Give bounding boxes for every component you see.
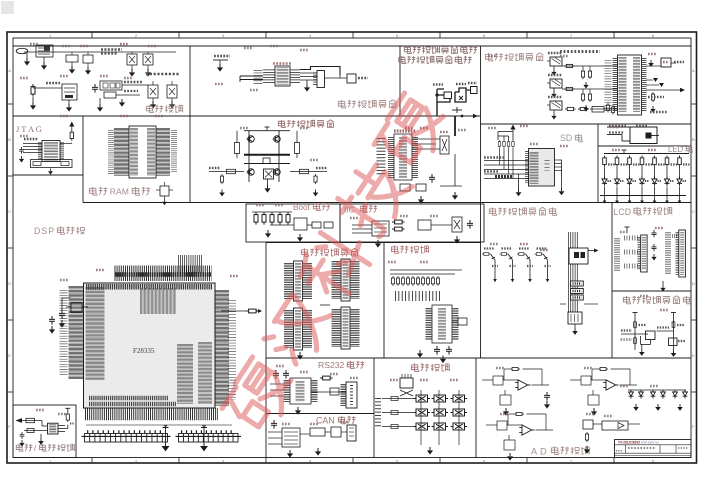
wires <box>270 224 294 226</box>
feedback resistor U22 <box>598 367 608 370</box>
wire row 2 <box>562 88 617 90</box>
cell emitter marks <box>527 265 533 267</box>
ground <box>417 350 423 358</box>
resistor pair below codec <box>607 103 610 112</box>
wire in <box>570 379 581 381</box>
resistor R53a <box>672 320 675 329</box>
resistor R52b <box>634 336 637 345</box>
dsp U9 left pin comb <box>69 286 84 379</box>
diode D8 <box>629 390 634 399</box>
sd card connector body <box>529 149 555 187</box>
audio codec inner text right <box>633 57 640 112</box>
section box: iic comms <box>340 204 484 242</box>
vcc tick <box>266 127 268 131</box>
ram U8 inner text col2 <box>147 128 155 176</box>
ground <box>440 356 446 364</box>
svg-text:B: B <box>8 137 11 142</box>
switch S4 <box>414 409 431 416</box>
ic U13 <box>418 220 431 230</box>
transistor Q9 <box>526 254 530 260</box>
cell drop wire <box>512 260 514 279</box>
dsp U9 bottom pin comb <box>85 408 218 421</box>
capacitor C11 <box>19 147 24 154</box>
header J6 left comb <box>284 263 293 299</box>
cell label <box>502 247 512 249</box>
sensor block A <box>646 331 656 340</box>
ground cluster <box>213 59 228 61</box>
diode D9 <box>639 390 644 399</box>
dsp U9 interior top name columns <box>140 288 176 314</box>
ad protection diode array <box>628 389 686 391</box>
header J8 right comb <box>303 310 312 348</box>
label: level shift <box>391 245 398 253</box>
label: external RAM circuit <box>89 187 96 195</box>
cell emitter marks <box>545 265 551 267</box>
resistor left <box>235 143 240 154</box>
section line: h y=202.5 wide <box>83 202 691 204</box>
resistor R10 <box>416 184 426 191</box>
cap array CA1 ground stem <box>165 426 167 444</box>
ground <box>648 60 654 67</box>
comparator block U23 <box>602 421 628 430</box>
section line: top row tops y=46 <box>13 45 691 47</box>
transistor Q7 <box>491 254 495 260</box>
op-amp U21 <box>515 380 530 390</box>
out wire <box>620 384 638 386</box>
wire dsp right to rs232 <box>221 310 246 312</box>
led bottom bus <box>600 195 686 197</box>
reset output arrow <box>16 418 23 423</box>
ground <box>48 169 53 175</box>
led resistor array R39-R45 <box>603 156 607 167</box>
reset wire lower <box>24 430 48 432</box>
net label <box>548 74 562 76</box>
cell emitter marks <box>492 265 498 267</box>
node VIN wire <box>24 51 126 53</box>
ad channel 3 input block <box>583 420 593 429</box>
drive loop 1 <box>437 89 450 102</box>
gray label <box>621 338 633 340</box>
svg-text:TX-2812/28335: TX-2812/28335 <box>618 441 640 445</box>
ground <box>119 99 125 107</box>
capacitor CE2 <box>143 54 153 65</box>
wire row 1 <box>562 65 617 67</box>
ground <box>677 404 683 411</box>
title small text <box>628 447 656 449</box>
decoupling capacitor array CA1 boxes <box>85 434 168 443</box>
ground <box>452 192 458 200</box>
dac net labels left <box>254 70 263 84</box>
header J6 right comb <box>303 263 312 299</box>
capacitor C12 <box>20 432 25 439</box>
audio codec left pins <box>613 58 618 112</box>
label: dc motor drive <box>278 120 285 128</box>
ic filter block <box>592 107 604 113</box>
regulator U3 <box>62 84 77 100</box>
ground <box>427 447 433 455</box>
wire to connector <box>466 89 471 91</box>
left output wire <box>209 171 244 173</box>
pullup wire drops <box>499 148 501 165</box>
label: seven segment driver circuit <box>489 207 496 215</box>
title block row line 2 <box>615 452 692 454</box>
resistor pair R64 R65 <box>581 92 584 102</box>
resistor R20 <box>392 220 405 224</box>
ground <box>99 98 101 104</box>
resistor right <box>295 143 300 154</box>
resistor R60 <box>564 64 575 67</box>
ground <box>68 100 70 104</box>
bridge mid bus thick <box>244 154 290 156</box>
frame zone ticks left <box>7 103 13 105</box>
diode D11 <box>661 390 666 399</box>
value label <box>639 324 647 326</box>
cell bottom tick <box>493 279 497 282</box>
switch S8 <box>432 423 449 430</box>
ground <box>651 254 656 260</box>
audio jack J19 <box>550 79 562 88</box>
transistor Q8 <box>508 254 512 260</box>
ground <box>267 179 269 185</box>
ground <box>69 66 75 74</box>
wire <box>592 390 594 395</box>
vcc arrow <box>71 126 73 130</box>
title block row line 1 <box>615 444 692 446</box>
lcd right wires <box>672 234 678 238</box>
max232 left comb <box>284 380 290 402</box>
section line: v x=374 can right <box>373 358 375 458</box>
connector J3 <box>440 136 449 154</box>
sd connector right pin wires <box>555 159 563 161</box>
resistor R58 <box>391 425 398 429</box>
temp wire A <box>621 333 648 335</box>
lcd left net label rows <box>614 238 620 271</box>
transistor Q13 mark <box>646 133 652 139</box>
ic U20 <box>331 427 341 437</box>
wires to header <box>23 143 42 145</box>
op-amp U22 <box>603 380 618 390</box>
audio codec net labels left <box>605 60 612 112</box>
can ic pins <box>284 431 298 433</box>
wire <box>646 65 661 67</box>
regulator U1 <box>36 45 53 57</box>
section line: v x=384 ext-header/level <box>383 243 385 359</box>
wires to header <box>300 72 317 74</box>
vcc arrow <box>512 129 514 132</box>
ground <box>145 69 151 77</box>
transistor Q10 <box>543 254 547 260</box>
ground <box>219 190 225 197</box>
ic block <box>330 388 339 395</box>
section box: monitor/reset <box>13 405 76 458</box>
db9 inner dots <box>350 385 353 405</box>
db9 connector J15 <box>346 382 357 408</box>
resistor R4 <box>31 84 35 97</box>
audio jack J20 <box>550 101 562 110</box>
capacitor C14 <box>434 346 440 355</box>
header J9 inner text <box>343 309 349 347</box>
wires left <box>352 224 372 226</box>
key cross wires <box>400 390 413 396</box>
ground <box>150 101 156 109</box>
resistor R59 <box>585 432 588 442</box>
svg-text:B: B <box>692 137 695 142</box>
cap array CA2 ground stem <box>203 426 205 444</box>
svg-text:SD: SD <box>560 133 572 143</box>
header J6 inner text <box>295 263 301 299</box>
bold wire from stepper <box>454 116 456 136</box>
wire <box>61 298 63 310</box>
cell label <box>484 247 494 249</box>
resistor R54 <box>320 376 333 380</box>
wires left <box>270 383 284 385</box>
key top connector J17 <box>400 378 413 388</box>
temp circuit A rail <box>634 315 636 350</box>
resistor R52a <box>634 320 637 329</box>
audio codec inner text left <box>619 57 627 112</box>
resistor R68 <box>651 92 654 102</box>
header J6 body <box>294 261 303 301</box>
ground <box>553 66 555 69</box>
db9 pin comb <box>341 384 346 406</box>
svg-text:F28335: F28335 <box>133 347 155 355</box>
dac U5 left pins <box>263 70 275 85</box>
wire to U6 <box>325 77 348 79</box>
seg connector J12 <box>568 312 582 324</box>
boot jumper blocks <box>312 222 321 228</box>
led driver top wires <box>607 126 650 128</box>
label: stepper motor buzzer line1 <box>404 46 411 54</box>
cell bottom tick <box>546 279 550 282</box>
section line: h y=116 <box>13 115 481 117</box>
connector J1 power jack <box>16 48 28 53</box>
ram U8 right pin comb <box>156 128 170 176</box>
net label <box>657 326 669 328</box>
level ic left comb <box>426 308 432 340</box>
rs232 cap C19 <box>273 370 279 379</box>
diode D13 <box>683 390 688 399</box>
lcd header J14 inner <box>680 232 684 275</box>
dsp U9 interior top text band <box>86 284 212 290</box>
net labels below right <box>648 96 664 98</box>
dsp U9 interior right text block a <box>177 344 193 404</box>
capacitor CE3 <box>148 85 158 98</box>
svg-text:D: D <box>8 281 11 286</box>
resistor R48 <box>517 253 526 256</box>
ground <box>306 80 308 84</box>
transistor Q5 <box>247 169 255 175</box>
net labels <box>46 82 60 84</box>
sd thick label <box>495 175 512 178</box>
resistor R56 <box>391 397 398 401</box>
led gnd stubs <box>604 187 606 196</box>
capacitor C17a <box>651 230 656 237</box>
bottom wire with arrow <box>437 115 474 117</box>
vertical drop wire <box>436 102 438 116</box>
ground <box>375 240 381 248</box>
ground <box>553 110 555 113</box>
lcd header J13 pins <box>638 237 641 270</box>
svg-text:C: C <box>8 209 11 214</box>
cap array CA2 bus <box>176 435 242 437</box>
net label lines <box>101 48 122 51</box>
header J21 body <box>317 71 325 88</box>
iic eeprom U12 <box>372 221 389 236</box>
net label <box>214 55 230 57</box>
ground <box>507 453 513 461</box>
ground <box>553 88 555 91</box>
feedback resistor U24 <box>514 412 524 415</box>
label: power circuit <box>146 105 153 113</box>
sd connector inner text <box>530 152 539 184</box>
connector J16 <box>347 425 356 441</box>
ground <box>162 199 167 205</box>
dac U5 right pins <box>290 70 300 85</box>
ground <box>591 408 597 416</box>
ground <box>454 236 460 244</box>
power net wire above caps <box>86 424 232 426</box>
cell emitter marks <box>510 265 516 267</box>
wire down right <box>454 154 456 186</box>
net labels right <box>171 130 177 172</box>
net label <box>316 167 327 169</box>
ic U7 2812 label <box>394 129 416 132</box>
ground <box>584 446 590 454</box>
dsp U9 interior bottom text <box>89 396 168 401</box>
driver block <box>444 92 452 99</box>
ic U7 left pin comb <box>388 137 394 178</box>
ground <box>297 352 303 360</box>
resistor R21 <box>392 227 405 231</box>
section line: h y=358 lower row tops <box>266 357 691 359</box>
varistor cluster <box>653 78 658 82</box>
lcd header J13 <box>641 235 647 272</box>
input block U22a <box>581 376 591 385</box>
svg-text:E: E <box>692 353 695 358</box>
ground <box>85 67 91 75</box>
level bus 1 <box>390 269 462 271</box>
switch S3 <box>451 395 468 402</box>
temp circuit A vcc tick <box>634 313 636 316</box>
sd connector left pins <box>525 151 529 183</box>
resistor R63 <box>564 87 575 90</box>
bridge left rail <box>248 131 250 182</box>
ram U8 left pin comb <box>114 128 129 176</box>
key column wires <box>420 390 422 445</box>
ic U7 right pin comb <box>412 137 418 178</box>
cell label <box>537 247 547 249</box>
svg-text:LED: LED <box>668 145 684 154</box>
header J9 body <box>341 307 350 349</box>
header J21 pins <box>313 73 317 87</box>
audio codec right pins <box>642 58 647 112</box>
section line: h y=413.5 rs232/can <box>266 413 374 415</box>
resistor R9 <box>400 184 410 191</box>
section line: h y=124 audio bottom <box>481 123 692 125</box>
wire in <box>482 379 493 381</box>
svg-text:A: A <box>8 68 11 73</box>
ground <box>315 448 321 456</box>
motor block M1 <box>264 169 274 179</box>
capacitor C8 <box>429 174 435 183</box>
max232 right comb <box>312 380 318 402</box>
ic U15 <box>458 318 467 325</box>
resistor R46 <box>482 253 491 256</box>
ground <box>19 440 24 446</box>
led driver step wire <box>621 135 623 142</box>
cell drop wire <box>494 260 496 279</box>
switch S1 <box>414 395 431 402</box>
section line: v x=83 jtag right <box>82 116 84 203</box>
cell drop wire <box>529 260 531 279</box>
feedback loop wire <box>504 368 510 370</box>
cell label <box>519 247 529 249</box>
capacitor C15 <box>446 346 452 355</box>
svg-text:D: D <box>692 281 695 286</box>
transistor Q3 <box>247 136 255 142</box>
audio jack J18 <box>550 57 562 66</box>
header J7 right comb <box>351 261 360 299</box>
ground <box>129 69 135 77</box>
level bus 2 <box>390 273 455 275</box>
section line: v x=598 sd/led <box>597 124 599 203</box>
ground <box>583 105 588 111</box>
wire <box>508 435 510 440</box>
boot bus <box>252 211 292 213</box>
title block col lines <box>625 445 627 453</box>
faint corner artifact <box>1 1 14 14</box>
ground <box>559 188 565 195</box>
wire in <box>486 424 497 426</box>
section line: h y=175 jtag bottom <box>13 174 83 176</box>
svg-text:RS232: RS232 <box>318 360 344 370</box>
svg-text:RAM: RAM <box>110 187 129 197</box>
sd right pin labels <box>545 160 550 171</box>
max232 inner text <box>296 381 305 402</box>
temp wire B <box>657 330 674 332</box>
capacitor C17b <box>651 244 656 251</box>
sd wires left <box>484 160 529 162</box>
header J8 body <box>294 308 303 350</box>
header J7 inner text <box>343 261 349 299</box>
wire row 3 <box>590 108 617 110</box>
header J7 left comb <box>332 261 341 299</box>
svg-text:A: A <box>692 68 695 73</box>
switch S9 <box>451 423 468 430</box>
resistor R47 <box>500 253 509 256</box>
temp circuit B rail <box>673 315 675 350</box>
cap array CA1 top ground <box>163 427 169 429</box>
crystal caps <box>59 310 65 319</box>
net label right <box>674 61 684 63</box>
resistor RV right <box>314 174 317 184</box>
lcd right net label rows <box>665 232 671 274</box>
ic U26 <box>661 58 671 67</box>
wires with labels <box>122 84 148 86</box>
switch S5 <box>432 409 449 416</box>
bias block U22b <box>588 395 599 405</box>
tick label <box>678 340 685 342</box>
bridge mid bus 2 <box>244 163 290 165</box>
decoupling capacitor array CA2 boxes <box>179 434 239 443</box>
resistor R67 <box>578 107 589 110</box>
svg-text:DSP: DSP <box>34 226 55 236</box>
net label <box>209 167 220 169</box>
wire loop up <box>300 67 340 76</box>
header J8 inner text <box>295 310 301 348</box>
net label <box>70 423 74 425</box>
ground <box>518 174 520 189</box>
